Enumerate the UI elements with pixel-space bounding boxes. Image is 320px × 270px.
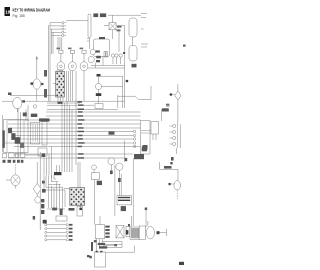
svg-text:18: 18 (5, 10, 11, 15)
svg-text:Fig. 185: Fig. 185 (13, 14, 25, 18)
svg-text:KEY TO WIRING DIAGRAM: KEY TO WIRING DIAGRAM (13, 8, 51, 13)
